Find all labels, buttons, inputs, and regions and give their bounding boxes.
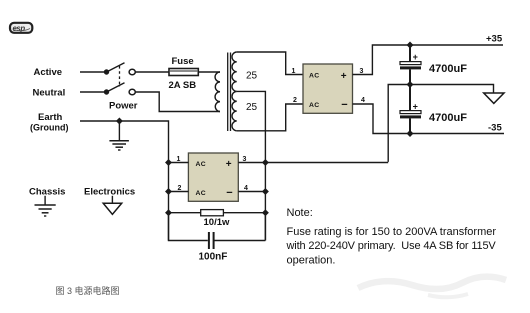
resistor R1 10/1w — [169, 210, 266, 216]
fuse F1 body — [169, 69, 198, 76]
transformer T1 core — [228, 53, 231, 132]
junction node right bus pin4 — [262, 188, 269, 195]
ESP logo — [10, 23, 32, 33]
svg-text:100nF: 100nF — [199, 251, 228, 262]
earth ground symbol — [109, 121, 128, 150]
transformer T1 secondary winding upper — [232, 52, 237, 91]
svg-text:Power: Power — [109, 101, 138, 112]
transformer T1 secondary winding lower — [232, 91, 237, 130]
svg-text:2: 2 — [293, 97, 297, 104]
wire neutral to transformer primary bottom — [135, 92, 220, 112]
svg-text:AC: AC — [196, 161, 206, 168]
svg-text:2A SB: 2A SB — [169, 80, 197, 91]
watermark faint — [358, 277, 506, 289]
svg-text:4: 4 — [361, 97, 365, 104]
svg-text:25: 25 — [246, 102, 258, 113]
note text — [286, 207, 497, 266]
junction node right bus resistor — [262, 209, 269, 216]
svg-text:+: + — [226, 159, 232, 170]
chassis ground symbol — [35, 196, 56, 216]
svg-text:Note:: Note: — [287, 207, 313, 219]
switch S1a blade — [107, 63, 125, 72]
svg-text:AC: AC — [309, 102, 319, 109]
svg-text:operation.: operation. — [287, 254, 336, 266]
ground symbol right — [484, 93, 504, 103]
svg-text:−: − — [226, 187, 232, 199]
switch S1a pole dot — [104, 69, 109, 74]
wire BR2 pin3 to mid rail riser — [238, 162, 388, 164]
svg-text:(Ground): (Ground) — [30, 123, 69, 133]
junction node bottom rail — [407, 130, 414, 137]
bridge rectifier BR1 body — [303, 64, 353, 113]
svg-text:Active: Active — [34, 67, 63, 78]
svg-text:AC: AC — [309, 73, 319, 80]
svg-text:Fuse rating is for 150 to 200V: Fuse rating is for 150 to 200VA transfor… — [287, 226, 497, 238]
wire BR2 pin2 — [169, 191, 189, 193]
svg-text:−: − — [341, 99, 347, 111]
label Earth (Ground) — [30, 112, 69, 133]
junction node left bus pin2 — [165, 188, 172, 195]
junction node top rail — [407, 42, 414, 49]
electronics ground symbol — [103, 196, 122, 215]
svg-text:esp: esp — [13, 24, 26, 33]
svg-text:4700uF: 4700uF — [429, 63, 467, 75]
svg-text:+: + — [413, 52, 418, 62]
switch gang dashed link — [119, 66, 121, 87]
wire BR2 pin4 — [238, 191, 265, 193]
junction node mid rail — [407, 81, 414, 88]
wire BR2 pin1 — [169, 162, 189, 164]
switch S1b pole dot — [104, 89, 109, 94]
svg-text:+: + — [341, 71, 347, 82]
wire BR1 pin4 to -35 rail — [353, 104, 505, 134]
svg-text:-35: -35 — [488, 122, 502, 133]
svg-text:25: 25 — [246, 71, 258, 82]
capacitor C1 4700uF — [400, 45, 421, 85]
switch S1a contact circle — [129, 69, 135, 74]
svg-text:3: 3 — [360, 68, 364, 75]
svg-text:Fuse: Fuse — [172, 56, 194, 67]
junction node right bus pin3 — [262, 159, 269, 166]
svg-text:4700uF: 4700uF — [429, 112, 467, 124]
svg-text:Neutral: Neutral — [33, 88, 66, 99]
wire secondary bottom to bridge pin 2 — [237, 104, 303, 131]
svg-text:+: + — [413, 101, 418, 111]
wire neutral lead — [80, 91, 104, 93]
wire center tap down bus — [237, 91, 266, 240]
junction node left bus resistor — [165, 209, 172, 216]
switch S1b contact circle — [129, 89, 135, 94]
svg-text:10/1w: 10/1w — [204, 217, 230, 228]
junction node left bus pin1 — [165, 159, 172, 166]
svg-text:AC: AC — [196, 190, 206, 197]
junction node earth — [116, 118, 123, 125]
transformer T1 primary winding — [215, 72, 220, 112]
svg-text:Earth: Earth — [38, 112, 62, 123]
wire BR1 pin3 to +35 rail — [353, 45, 504, 75]
svg-text:Electronics: Electronics — [84, 186, 135, 197]
wire switch to fuse — [135, 71, 169, 73]
wire secondary top to bridge pin 1 — [237, 52, 303, 75]
svg-text:Chassis: Chassis — [29, 186, 65, 197]
wire earth lead — [80, 121, 169, 241]
bridge rectifier BR2 body — [188, 153, 238, 201]
capacitor C3 100nF — [169, 213, 266, 249]
svg-text:with 220-240V primary. Use 4A: with 220-240V primary. Use 4A SB for 115… — [286, 240, 497, 252]
svg-text:图 3 电源电路图: 图 3 电源电路图 — [56, 285, 120, 296]
wire fuse to transformer primary — [198, 71, 220, 73]
switch S1b blade — [107, 83, 125, 92]
svg-text:+35: +35 — [486, 33, 503, 44]
wire active lead — [80, 71, 104, 73]
capacitor C2 4700uF — [400, 85, 421, 134]
svg-text:1: 1 — [292, 68, 296, 75]
wire mid node to ground and to lower bridge — [388, 85, 493, 162]
